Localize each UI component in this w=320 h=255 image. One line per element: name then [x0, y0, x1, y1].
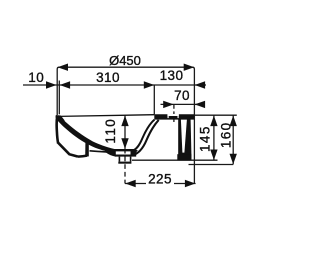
bottom ref line 160 [189, 164, 234, 166]
bottom ref line 145 [132, 159, 218, 161]
dim line 160 [232, 115, 234, 164]
svg-text:70: 70 [174, 88, 190, 103]
160 bottom [230, 154, 237, 165]
dim line 110 [124, 116, 126, 149]
drain centerline dashed [124, 149, 126, 184]
130 right (outside, points left, tip 194.6) [195, 81, 206, 88]
foot bottom edge [78, 156, 87, 157]
dia450 left [58, 64, 69, 71]
svg-text:Ø450: Ø450 [109, 53, 141, 68]
svg-text:145: 145 [198, 125, 213, 152]
far foot line to drain [90, 151, 112, 152]
extension stub 310 left [58, 81, 60, 115]
strut [85, 143, 89, 157]
extension stub 130 left / deck corner [153, 85, 155, 115]
dia450 right [184, 64, 195, 71]
160 top [230, 116, 237, 127]
left shell (filled) [57, 116, 115, 153]
svg-text:130: 130 [160, 68, 184, 83]
dim line 10/310/130 [23, 84, 194, 86]
110 bottom [121, 138, 128, 149]
10 left (points right, tip at 56.5) [46, 81, 57, 88]
310 left (tip 59.6, head right) [60, 81, 71, 88]
tap hole notch [167, 114, 178, 116]
left outer edge [57, 116, 58, 143]
back column block [178, 119, 191, 160]
dim line Ø450 [57, 67, 194, 183]
foot diagonal [58, 142, 78, 156]
rim top line [59, 115, 154, 117]
70 left (outside, points right, tip 173.7) [163, 101, 174, 108]
top ref line (145/160) [188, 114, 237, 116]
back foot [177, 154, 191, 160]
110 top [121, 116, 128, 127]
svg-text:10: 10 [28, 70, 44, 85]
svg-text:225: 225 [148, 171, 172, 186]
deck bar [154, 114, 194, 119]
svg-text:160: 160 [219, 121, 234, 148]
column white wedge [181, 120, 187, 153]
225 left [125, 180, 136, 187]
70 right (outside, points left, tip 194.6) [195, 101, 206, 108]
J curve: right bowl wall, double line [132, 120, 154, 151]
J-to-drain junction fill [131, 150, 138, 155]
145 bottom [210, 150, 217, 161]
145 top [210, 116, 217, 127]
310 right / 130 left (points right, tip 154.3) [144, 81, 155, 88]
corner blob [56, 115, 66, 125]
225 right [185, 180, 196, 187]
drain assembly [105, 147, 138, 164]
tap centerline dashed [173, 105, 175, 123]
dim line 70 [161, 103, 195, 105]
dim line 145 [213, 115, 215, 160]
svg-text:110: 110 [103, 118, 118, 144]
svg-text:310: 310 [96, 70, 120, 85]
dim line 225 [125, 183, 196, 185]
BASIN [59, 115, 154, 117]
